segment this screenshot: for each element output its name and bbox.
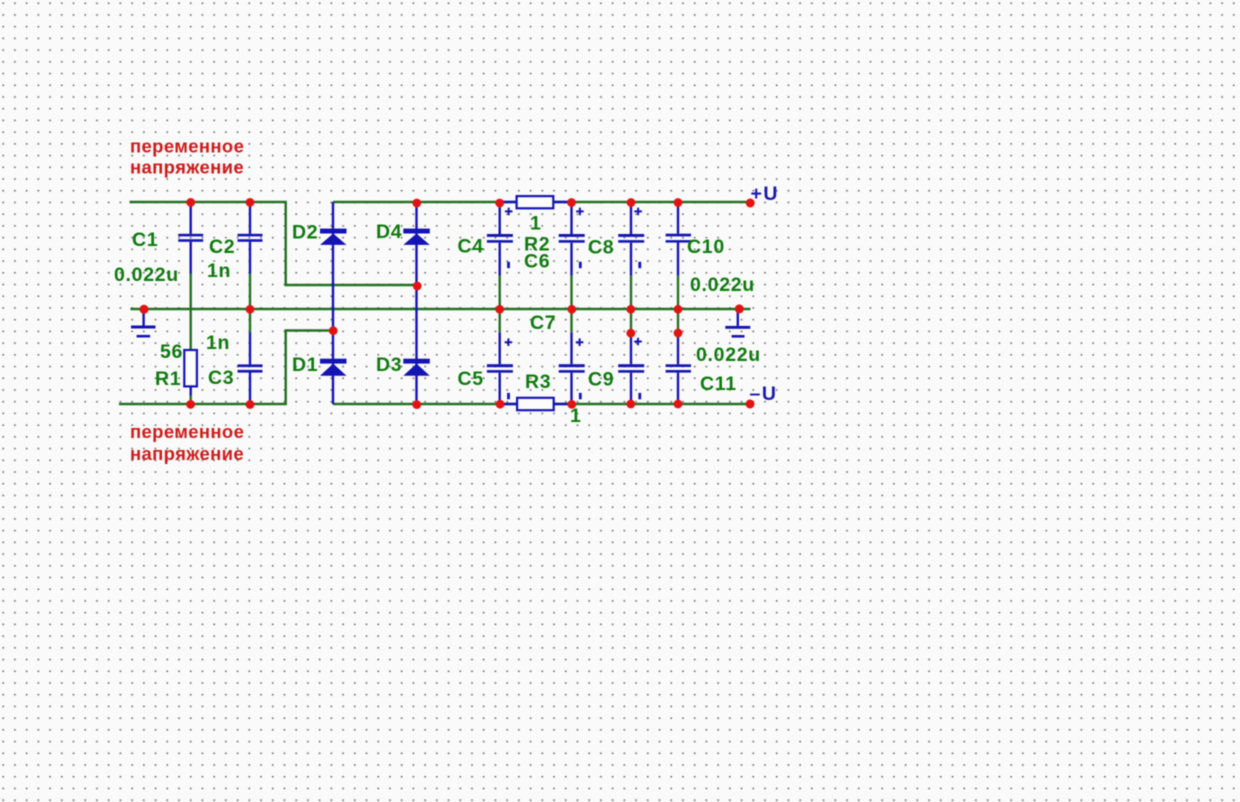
svg-text:D1: D1 [292,354,318,376]
svg-text:напряжение: напряжение [130,157,244,178]
svg-text:C4: C4 [458,236,484,258]
svg-text:0.022u: 0.022u [114,264,179,286]
svg-text:+U: +U [751,183,779,205]
svg-text:C10: C10 [687,236,725,258]
svg-text:переменное: переменное [130,421,244,442]
svg-text:C2: C2 [209,236,235,258]
svg-text:1n: 1n [206,332,230,354]
svg-text:0.022u: 0.022u [696,344,761,366]
svg-text:R1: R1 [155,368,181,390]
svg-text:C11: C11 [700,373,737,395]
svg-text:56: 56 [160,341,183,363]
svg-text:C5: C5 [458,368,484,390]
svg-text:1n: 1n [207,260,231,282]
svg-text:переменное: переменное [130,135,244,156]
svg-text:D2: D2 [292,222,318,244]
svg-text:C1: C1 [132,229,158,251]
svg-text:1: 1 [570,405,582,427]
svg-text:–U: –U [750,383,778,405]
svg-text:C9: C9 [588,369,614,391]
svg-text:1: 1 [530,213,542,235]
svg-text:0.022u: 0.022u [690,274,755,296]
svg-text:напряжение: напряжение [130,443,244,464]
svg-text:C3: C3 [208,367,234,389]
svg-text:C8: C8 [588,237,614,259]
svg-text:D3: D3 [376,354,402,376]
svg-text:D4: D4 [376,221,402,243]
svg-text:R3: R3 [525,371,551,393]
svg-text:C6: C6 [524,251,550,273]
svg-text:C7: C7 [530,312,556,334]
